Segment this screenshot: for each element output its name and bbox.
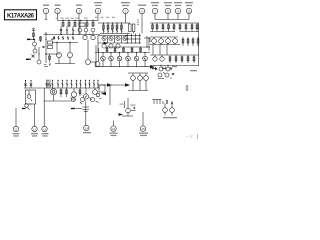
wire center h67 bbox=[95, 66, 150, 68]
wire lowleft h88 bbox=[24, 87, 50, 89]
wire center h47 bbox=[106, 46, 150, 48]
resistor R6 bbox=[107, 23, 109, 34]
wire left h54 bbox=[45, 53, 60, 55]
wire emitters Q10 Q11 bbox=[59, 58, 70, 64]
diode D4 bbox=[62, 36, 64, 40]
wire center h44 bbox=[98, 42, 128, 44]
wire Q emitters bbox=[61, 31, 93, 34]
pin 15 (bottom, x143) bbox=[140, 112, 145, 131]
resistor R9 bbox=[121, 23, 123, 34]
resistor R16 bbox=[185, 23, 187, 32]
cluster above pin 12 bbox=[22, 104, 32, 110]
transistor Q4c bbox=[91, 28, 95, 32]
resistor R13 bbox=[168, 23, 170, 32]
wire left v3 bbox=[45, 33, 47, 63]
label smudge right-top bbox=[172, 66, 177, 67]
wire right edge vertical bbox=[198, 23, 200, 66]
pin 14 (bottom, x87) bbox=[84, 113, 89, 131]
arrow A2 bbox=[125, 83, 130, 87]
wire mid v98 bbox=[98, 48, 100, 62]
arrow A1 bbox=[107, 83, 112, 87]
pin 9 label bbox=[174, 2, 182, 3]
wire stub q12 bbox=[91, 61, 98, 63]
junction dots upper bus bbox=[62, 20, 93, 21]
junction dots row bbox=[47, 80, 98, 81]
pin 16 label bbox=[185, 2, 193, 3]
wire center grid verticals bbox=[128, 34, 140, 44]
diode D10 bbox=[49, 80, 51, 89]
transistor Q9 bbox=[91, 35, 95, 40]
resistor R38 bbox=[60, 88, 62, 97]
transistor Q24 bbox=[134, 53, 139, 67]
wire stubs row center-left bbox=[48, 80, 98, 88]
transistor Q11 bbox=[68, 43, 73, 58]
grid junction dots bbox=[127, 35, 140, 44]
wire low h101 bbox=[44, 100, 72, 102]
pin 6 label bbox=[138, 5, 146, 6]
pin 10 (bottom, x113.5) bbox=[111, 121, 116, 132]
node dots left chain bbox=[34, 39, 47, 55]
wire center h52.5 bbox=[95, 52, 150, 54]
IC block box bbox=[25, 90, 35, 104]
transistor Q7 bbox=[37, 60, 41, 64]
transistor Q36c bbox=[71, 98, 76, 102]
wire center-right h85 bbox=[100, 84, 128, 86]
transistor Q36d bbox=[80, 96, 87, 105]
transistor Q39 bbox=[144, 73, 149, 91]
wire left vertical bbox=[34, 39, 36, 42]
resistor R2 bbox=[68, 21, 70, 28]
transistor Q37 bbox=[131, 73, 136, 91]
pin 15 label bbox=[139, 133, 148, 137]
pin 4 label bbox=[94, 2, 102, 3]
pin 10 label bbox=[110, 133, 118, 137]
pin 14 label bbox=[83, 132, 91, 133]
pin 13 (bottom, x45) bbox=[42, 88, 47, 132]
pin 16 (top, x189) bbox=[186, 8, 191, 13]
diode D12 bbox=[43, 46, 45, 48]
component value smudges above bus bbox=[56, 17, 116, 19]
resistor R8 bbox=[116, 23, 118, 34]
transformer T1 bbox=[126, 23, 135, 34]
wire rail h88 extension bbox=[50, 87, 100, 89]
transistor Q43 bbox=[163, 104, 168, 113]
capacitor C3 bbox=[99, 85, 105, 92]
diode ticks mid-top bbox=[103, 30, 123, 32]
wire v124 bbox=[124, 101, 126, 108]
svg-text:K17AXA26: K17AXA26 bbox=[7, 14, 35, 20]
wire right h55 bbox=[150, 54, 199, 56]
node C bbox=[51, 39, 52, 40]
wire stub right of grid bbox=[144, 36, 150, 48]
transistor Q42 bbox=[126, 108, 131, 116]
arrow A6 bbox=[104, 42, 109, 45]
capacitor C2 bbox=[48, 41, 53, 49]
transistor Q44 bbox=[170, 104, 175, 113]
pin 3 lead wire bbox=[78, 14, 80, 35]
pin 8 label bbox=[164, 2, 172, 3]
wire bus2 upper-left bbox=[44, 34, 101, 36]
capacitor C4 bbox=[186, 85, 189, 91]
diode D8 bbox=[30, 81, 32, 89]
wire v110 bbox=[109, 85, 111, 105]
wire right h44 bbox=[150, 44, 180, 46]
page number text bbox=[185, 134, 197, 139]
arrow A5 bbox=[150, 65, 155, 68]
resistor R23 bbox=[106, 47, 108, 53]
diode D2 bbox=[53, 36, 55, 40]
resistor R36 bbox=[187, 55, 189, 63]
resistor R14 bbox=[173, 23, 175, 32]
resistor R19 bbox=[32, 28, 35, 39]
resistor R1 bbox=[62, 21, 64, 28]
transistor Q20 bbox=[101, 53, 106, 67]
wire q35 emitter bbox=[73, 97, 75, 101]
wire center h37 bbox=[98, 35, 128, 37]
transistor Q1 bbox=[60, 26, 62, 34]
transistor Q19 bbox=[109, 44, 113, 48]
wire mid h63 bbox=[55, 63, 75, 65]
title box K17AXA26 bbox=[5, 10, 37, 20]
pin 12 (bottom, x33) bbox=[32, 104, 37, 132]
pin 11 label bbox=[13, 133, 20, 137]
wire mid v57 bbox=[56, 43, 58, 53]
transistor Q34 (power) bbox=[50, 89, 56, 95]
label smudge cluster bbox=[120, 104, 136, 106]
pin 6 lead wire bbox=[138, 14, 142, 34]
resistor R25 bbox=[123, 47, 125, 53]
label glyphs right-mid bbox=[153, 99, 174, 104]
pin 8 lead wire bbox=[167, 14, 169, 20]
transistor Q40 bbox=[159, 65, 163, 72]
pin 2 (top, x57.5) bbox=[55, 8, 60, 13]
resistor R33 bbox=[169, 55, 171, 63]
label smudge far-right-top bbox=[190, 70, 197, 71]
pin 5 (top, x125.5) bbox=[123, 8, 128, 13]
resistor R40 bbox=[79, 88, 81, 96]
pin 9 (top, x178) bbox=[175, 8, 180, 13]
transistor Q21 bbox=[109, 53, 114, 67]
arrow A3 bbox=[101, 92, 106, 95]
transistor Q19b bbox=[116, 44, 120, 48]
svg-text:11: 11 bbox=[15, 127, 18, 131]
resistor R37 bbox=[193, 55, 195, 63]
diode D3 bbox=[58, 36, 60, 40]
pin 7 lead wire bbox=[154, 14, 156, 20]
resistor R18 bbox=[196, 23, 198, 32]
transistor Q12 bbox=[86, 60, 91, 65]
wire center v-links bbox=[108, 36, 122, 44]
node B bbox=[29, 59, 30, 60]
wire mid h42 bbox=[52, 42, 78, 44]
transistor Q2 bbox=[66, 26, 68, 34]
transistor Q30 bbox=[153, 55, 157, 61]
label smudge right bbox=[152, 67, 172, 70]
arrow A4 bbox=[119, 113, 124, 116]
resistor R27 bbox=[140, 47, 142, 53]
transistor Q8 bbox=[83, 35, 87, 40]
pin 2 label bbox=[55, 5, 61, 6]
transistor Q29 bbox=[173, 37, 178, 45]
wire mid v88 bbox=[87, 40, 89, 60]
resistor R11 bbox=[156, 23, 158, 32]
wire Q feeds bbox=[80, 21, 86, 29]
pin 11 (bottom, x16) bbox=[13, 108, 18, 132]
wire q34 emitter bbox=[53, 95, 55, 101]
pin 1 lead wire bbox=[45, 14, 47, 20]
transistor Q32 bbox=[27, 90, 32, 101]
diode D9 bbox=[45, 80, 47, 89]
wire stub left A bbox=[27, 38, 35, 40]
wire center grid horizontals bbox=[125, 36, 141, 44]
pin 4 lead wire bbox=[97, 14, 99, 21]
svg-text:16: 16 bbox=[187, 9, 191, 13]
pin 13 label bbox=[42, 133, 49, 137]
wire left v2 bbox=[38, 47, 40, 60]
transistor Q26 bbox=[152, 37, 157, 45]
resistor R24 bbox=[114, 47, 116, 53]
resistor R29 bbox=[182, 37, 184, 46]
diode arrows row bbox=[47, 83, 99, 85]
resistor R34 bbox=[175, 55, 177, 63]
resistor R35 bbox=[181, 55, 183, 63]
resistor R12 bbox=[162, 23, 164, 32]
svg-text:12: 12 bbox=[33, 127, 37, 131]
wire center-right h73 bbox=[128, 72, 148, 74]
resistor R15 bbox=[179, 23, 181, 32]
svg-text:10: 10 bbox=[112, 127, 116, 131]
diode D11 bbox=[131, 107, 136, 111]
pin 2 lead wire bbox=[57, 14, 59, 21]
transistor Q22 bbox=[117, 53, 122, 67]
transistor Q25 bbox=[143, 53, 148, 67]
diode ticks cluster bbox=[155, 68, 174, 79]
wire h116 bbox=[122, 115, 133, 117]
wire right drops bbox=[153, 45, 167, 56]
transistor Q38 bbox=[138, 73, 143, 91]
resistor R3 bbox=[74, 21, 76, 28]
pin 1 (top, x46) bbox=[43, 8, 48, 13]
wire center left edge bbox=[95, 45, 97, 67]
resistor R31 bbox=[192, 37, 194, 46]
pin 5 lead wire bbox=[125, 14, 127, 23]
transistor Q17 bbox=[123, 36, 127, 41]
transistor Q27 bbox=[159, 37, 164, 45]
transistor Q18 bbox=[102, 44, 106, 48]
resistor R26 bbox=[131, 47, 133, 53]
wire stub left B bbox=[26, 58, 31, 60]
pin 16 lead wire bbox=[188, 14, 190, 20]
wire bus upper-left bbox=[58, 20, 99, 22]
svg-text:15: 15 bbox=[141, 127, 145, 131]
diode D7 bbox=[24, 81, 26, 89]
transistor Q3 bbox=[72, 26, 74, 34]
wire mid-top bus bbox=[100, 33, 130, 35]
pin 4 (top, x98) bbox=[95, 8, 100, 13]
pin 9 lead wire bbox=[177, 14, 179, 20]
wire right feed bbox=[150, 22, 199, 24]
transistor Q13 bbox=[95, 62, 100, 67]
pin 8 (top, x168) bbox=[165, 8, 170, 13]
diode D6 bbox=[72, 36, 74, 40]
pin 3 (top, x79) bbox=[76, 8, 81, 13]
pin 12 label bbox=[31, 133, 38, 137]
resistor R4b bbox=[92, 21, 94, 28]
wire mid-top link bbox=[98, 22, 126, 24]
transistor Q36b bbox=[93, 88, 98, 94]
label smudge left-bottom bbox=[44, 64, 51, 67]
resistor R17 bbox=[191, 23, 193, 32]
transistor Q41c bbox=[165, 73, 169, 77]
wire center divider bbox=[148, 37, 150, 51]
ground symbol bbox=[71, 101, 89, 114]
resistor R32 bbox=[197, 37, 199, 46]
pin 5 label bbox=[121, 2, 130, 3]
label smudge under cluster bbox=[163, 117, 177, 118]
transistor Q4b bbox=[84, 28, 88, 32]
wire right h65 bbox=[150, 65, 199, 67]
wire right lower link bbox=[150, 31, 175, 33]
wire bus top-right bbox=[155, 19, 189, 21]
transistor Q36e bbox=[90, 98, 102, 103]
pin 7 (top, x155) bbox=[152, 8, 157, 13]
pin 7 label bbox=[151, 2, 159, 3]
transistor Q28 bbox=[166, 37, 171, 45]
diode D1 bbox=[32, 55, 35, 58]
transistor Q5 bbox=[33, 42, 37, 46]
diode D5 bbox=[67, 36, 69, 40]
svg-text:13: 13 bbox=[43, 127, 47, 131]
pin 3 label bbox=[76, 5, 82, 6]
resistor R5 bbox=[103, 23, 105, 34]
wire center-right h90 bbox=[128, 90, 148, 92]
resistor R41 bbox=[49, 54, 51, 62]
node A bbox=[33, 39, 34, 40]
resistor R10 bbox=[152, 23, 154, 32]
transistor Q35 bbox=[71, 88, 76, 97]
transistor Q41 bbox=[166, 65, 170, 72]
transistor Q23 bbox=[126, 53, 131, 67]
wire right h37 bbox=[150, 36, 178, 38]
svg-text:14: 14 bbox=[85, 126, 89, 130]
transistor Q36f bbox=[96, 93, 100, 97]
capacitor C1 bbox=[79, 23, 85, 26]
transistor Q41b bbox=[158, 73, 162, 77]
junction dots mid-top bbox=[103, 22, 122, 23]
transistor Q31 bbox=[160, 55, 164, 61]
transistor Q14 bbox=[102, 36, 106, 41]
resistor R7 bbox=[112, 23, 114, 34]
resistor R39 bbox=[66, 88, 68, 97]
wire emitters bbox=[165, 112, 172, 115]
resistor R4 bbox=[86, 21, 88, 28]
svg-text:— 17: — 17 bbox=[185, 135, 193, 139]
resistor R42 bbox=[40, 36, 42, 42]
wire v128 bbox=[127, 98, 129, 108]
transistor Q15 bbox=[109, 36, 113, 41]
transistor Q16 bbox=[116, 36, 120, 41]
node dots lowleft bbox=[25, 80, 32, 81]
pin 1 label bbox=[43, 5, 49, 6]
transistor Q10 bbox=[57, 53, 62, 58]
pin 6 (top, x142) bbox=[139, 8, 144, 13]
transistor Q4 bbox=[78, 28, 82, 32]
transistor Q36 bbox=[83, 88, 88, 99]
resistor R30 bbox=[187, 37, 189, 46]
transistor Q6 bbox=[33, 46, 37, 53]
